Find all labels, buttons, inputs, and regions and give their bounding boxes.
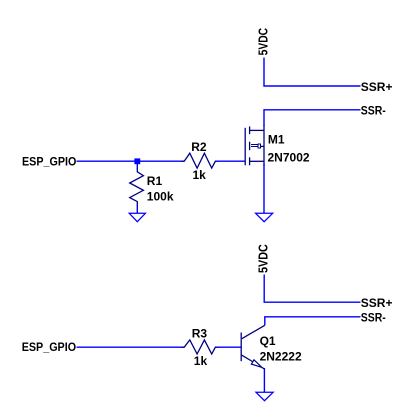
svg-text:M1: M1: [268, 132, 285, 146]
resistor R1: [130, 169, 144, 206]
source stub: [250, 160, 264, 162]
internal vertical drain-body-source: [263, 130, 265, 166]
svg-text:5VDC: 5VDC: [257, 28, 271, 56]
wire Q1 emitter to ground: [263, 368, 265, 392]
resistor R2: [182, 153, 219, 168]
emitter arrowhead: [251, 360, 262, 368]
drain stub: [250, 129, 264, 131]
wire R1 to ground: [136, 205, 138, 213]
svg-text:100k: 100k: [147, 190, 174, 204]
mosfet M1: [245, 126, 264, 166]
body arrow wedge top side: [251, 144, 258, 146]
junction at R1 top: [134, 158, 140, 164]
wire R2 to M1 gate: [216, 160, 246, 162]
svg-text:SSR-: SSR-: [361, 103, 386, 117]
svg-text:R3: R3: [192, 326, 208, 340]
svg-text:R2: R2: [191, 140, 207, 154]
ground under R1: [129, 213, 145, 221]
svg-text:1k: 1k: [194, 354, 208, 368]
drain channel tick: [249, 126, 251, 134]
svg-text:2N2222: 2N2222: [260, 350, 302, 364]
collector diagonal: [242, 325, 265, 338]
wire 5VDC down and right to SSR+: [264, 58, 361, 87]
svg-text:ESP_GPIO: ESP_GPIO: [22, 154, 76, 168]
emitter diagonal (tip to lead): [262, 367, 265, 369]
svg-text:5VDC: 5VDC: [256, 244, 270, 273]
svg-text:SSR+: SSR+: [361, 80, 393, 94]
transistor Q1: [241, 325, 265, 369]
wire R3 to Q1 base: [216, 346, 241, 348]
gate bar: [244, 128, 246, 166]
wire M1 source to ground: [263, 164, 265, 213]
svg-text:1k: 1k: [193, 168, 207, 182]
svg-text:SSR-: SSR-: [361, 311, 386, 325]
wire segment into drain: [263, 125, 265, 130]
svg-text:R1: R1: [147, 174, 163, 188]
body arrow wedge bottom side: [251, 146, 258, 148]
svg-text:2N7002: 2N7002: [268, 150, 310, 164]
wire ESP_GPIO to R2 (through junction): [77, 160, 185, 162]
wire junction down to R1: [136, 161, 138, 169]
resistor R3: [182, 340, 219, 354]
ground under M1: [256, 213, 273, 221]
svg-text:SSR+: SSR+: [361, 296, 393, 310]
base bar: [240, 333, 242, 362]
body stub shaft: [261, 145, 265, 147]
svg-text:ESP_GPIO: ESP_GPIO: [22, 340, 76, 354]
wire 5VDC down and right to SSR+ (bottom): [264, 275, 360, 303]
wire SSR- to M1 drain: [264, 110, 361, 126]
body arrow base box: [258, 144, 261, 148]
body channel tick: [249, 142, 251, 151]
svg-text:Q1: Q1: [260, 334, 276, 348]
wire ESP_GPIO to R3: [77, 346, 185, 348]
ground under Q1: [256, 392, 273, 400]
source channel tick: [249, 157, 251, 165]
wire SSR- to Q1 collector: [265, 317, 361, 326]
emitter diagonal (to arrowhead): [242, 355, 253, 361]
